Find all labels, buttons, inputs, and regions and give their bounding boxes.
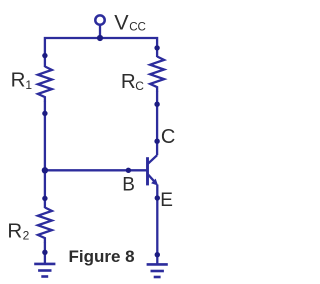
svg-text:C: C [161,126,175,148]
svg-text:Figure 8: Figure 8 [69,247,135,266]
svg-text:2: 2 [23,228,30,242]
svg-text:C: C [135,79,144,93]
pin R1 bottom [42,111,47,116]
pin R1 top [42,53,47,58]
svg-text:1: 1 [25,78,32,92]
wire top rail with corners [45,38,157,67]
ground right bar1 [147,263,168,266]
pin Q1 emitter [155,195,160,200]
pin RC bottom [154,102,159,107]
ground left bar1 [34,263,55,266]
transistor Q1 emitter diagonal [148,174,155,181]
transistor Q1 emitter arrowhead [151,179,158,186]
resistor R1 zigzag [38,67,52,103]
wire R2 to left ground [44,242,46,264]
pin R2 bottom [42,250,47,255]
svg-text:R: R [121,70,136,93]
svg-text:E: E [160,190,173,211]
pin Q1 base [126,168,131,173]
resistor RC zigzag [150,57,164,93]
ground right bar3 [154,276,161,279]
terminal Vcc circle [95,15,104,24]
svg-text:B: B [122,174,135,195]
pin Q1 collector [154,139,159,144]
wire Vcc stem [99,25,101,38]
ground left bar3 [41,275,48,278]
ground right bar2 [151,270,164,273]
ground left bar2 [38,269,51,272]
wire emitter to right ground [156,185,158,265]
wire RC to collector [156,92,158,156]
pin right ground [155,252,160,257]
pin R2 top [42,196,47,201]
resistor R2 zigzag [38,208,52,243]
wire base horizontal [45,169,147,171]
junction Vcc node [97,35,103,41]
transistor Q1 base bar [146,157,149,185]
svg-text:R: R [7,219,22,242]
svg-text:R: R [11,69,26,92]
svg-text:CC: CC [129,20,146,33]
pin RC top [154,45,159,50]
wire base node to R2 [44,170,46,208]
wire R1 to base node [44,102,46,171]
svg-text:V: V [114,11,129,35]
transistor Q1 collector diagonal [148,155,158,164]
junction base node [42,167,48,173]
